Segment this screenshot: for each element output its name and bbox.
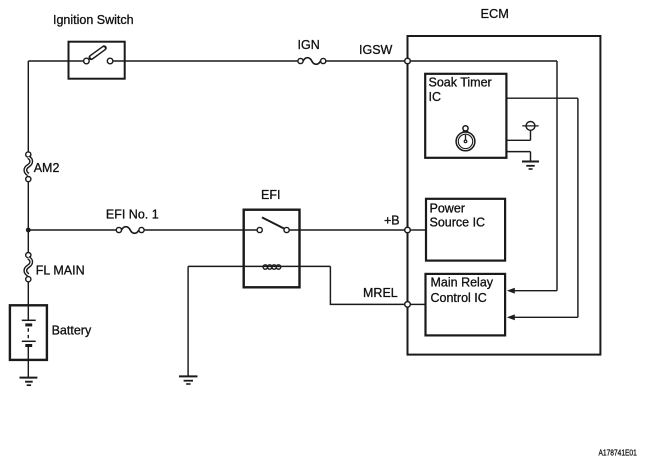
svg-text:Main Relay: Main Relay <box>431 275 494 289</box>
wire: Soak Timer IC ground leg <box>506 152 530 161</box>
wire: ignition switch to IGN fuse <box>125 60 298 62</box>
battery plates <box>22 319 36 321</box>
svg-text:AM2: AM2 <box>34 161 60 175</box>
fusible link AM2 <box>26 152 31 157</box>
svg-text:Power: Power <box>430 201 465 215</box>
wire: +B terminal to Power Source IC <box>410 229 426 231</box>
soak timer stopwatch icon <box>456 132 475 151</box>
Main Relay Control IC box <box>426 274 506 336</box>
svg-text:Soak Timer: Soak Timer <box>429 75 492 89</box>
wire: relay coil line with external runs <box>188 265 330 267</box>
wire: left vertical bus down to AM2 <box>27 61 29 152</box>
relay EFI contact circles <box>257 227 262 232</box>
wire: FL MAIN to battery box <box>27 282 29 306</box>
wire: Soak Timer IC output to Main Relay Control IC <box>506 98 578 317</box>
fusible link FL MAIN <box>26 253 31 258</box>
relay EFI switch blade <box>262 217 284 228</box>
backup power symbol (circle with bar) <box>526 122 535 131</box>
svg-text:+B: +B <box>384 213 400 227</box>
wire: left vertical AM2 to junction <box>27 182 29 230</box>
wire: junction to FL MAIN <box>27 230 29 253</box>
battery box <box>10 305 47 360</box>
svg-text:A178741E01: A178741E01 <box>599 448 637 458</box>
terminal MREL <box>405 302 411 308</box>
ground: Soak Timer IC internal ground <box>522 162 539 170</box>
svg-text:Control IC: Control IC <box>431 291 487 305</box>
wire: middle bus junction to EFI No.1 fuse <box>28 229 116 231</box>
node: junction of battery bus and EFI No.1 feed <box>26 228 31 233</box>
svg-text:FL MAIN: FL MAIN <box>36 264 85 278</box>
svg-text:MREL: MREL <box>363 286 398 300</box>
svg-text:ECM: ECM <box>481 6 509 21</box>
wire: coil left leg down to ground <box>187 266 189 376</box>
svg-text:EFI No. 1: EFI No. 1 <box>106 208 159 222</box>
svg-text:EFI: EFI <box>261 188 280 202</box>
Soak Timer IC box <box>425 74 506 158</box>
svg-text:IGSW: IGSW <box>359 43 393 57</box>
ignition switch lever <box>91 48 104 57</box>
ECM outer box <box>408 36 601 355</box>
ignition switch contact circles <box>84 58 90 64</box>
svg-text:Battery: Battery <box>52 324 92 338</box>
ignition switch box <box>69 42 125 79</box>
fuse IGN <box>298 58 303 63</box>
wire: EFI relay to +B terminal <box>300 229 405 231</box>
relay EFI coil <box>263 265 267 269</box>
ground: EFI relay coil ground <box>179 376 198 384</box>
wire: top bus from left corner to ignition switch <box>28 60 68 62</box>
ground: battery ground <box>20 378 38 386</box>
wire: MREL terminal to Main Relay Control IC <box>410 303 425 305</box>
svg-text:Ignition Switch: Ignition Switch <box>53 13 134 27</box>
svg-text:Source IC: Source IC <box>430 216 486 230</box>
wire: IGN fuse to IGSW terminal <box>326 60 405 62</box>
wire: relay contact stubs <box>244 229 300 231</box>
terminal +B <box>405 227 411 233</box>
arrowhead into Main Relay Control IC (from IGSW) <box>507 288 515 294</box>
terminal IGSW <box>405 58 411 64</box>
relay EFI box <box>244 210 300 288</box>
fuse EFI No. 1 <box>116 227 121 232</box>
wire: IGSW terminal feed into Main Relay Control IC <box>410 61 557 291</box>
wire: ignition switch internal stubs <box>69 60 125 62</box>
wire: battery internal top lead <box>27 305 29 320</box>
wire: coil right leg down and over to MREL terminal <box>330 266 404 304</box>
svg-text:IGN: IGN <box>298 38 320 52</box>
wire: battery bottom lead to ground <box>27 346 29 378</box>
Power Source IC box <box>426 199 505 261</box>
wire: EFI No.1 fuse to EFI relay <box>144 229 244 231</box>
wire: Soak Timer IC to backup power symbol <box>506 130 530 140</box>
arrowhead into Main Relay Control IC (from Soak Timer) <box>507 314 515 320</box>
svg-text:IC: IC <box>429 90 442 104</box>
